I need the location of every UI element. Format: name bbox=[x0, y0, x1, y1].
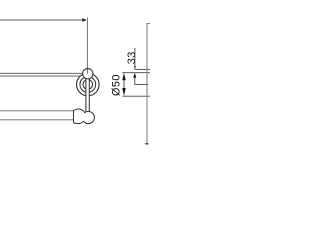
33 dim line upper stub bbox=[134, 48, 136, 67]
svg-text:33: 33 bbox=[126, 51, 138, 64]
towel bar bottom edge bbox=[0, 119, 78, 121]
flange collar ring bbox=[83, 80, 93, 90]
33 lower arrow (up) bbox=[133, 73, 136, 78]
Ø50 bottom extension line bbox=[122, 95, 150, 97]
extension line (center of bracket) bbox=[86, 17, 88, 73]
glass shelf bottom edge bbox=[0, 75, 81, 77]
arrowhead right bbox=[82, 18, 87, 21]
extension line inside knob bbox=[86, 69, 88, 74]
wall line bbox=[146, 24, 148, 144]
wall flange outer circle Ø50 bbox=[77, 73, 100, 96]
Ø50 lower arrow (down) bbox=[122, 88, 125, 96]
support post bbox=[86, 75, 89, 113]
glass shelf top edge bbox=[0, 72, 83, 74]
33 upper arrow (down) bbox=[134, 66, 136, 69]
flange inner ring bbox=[80, 77, 96, 93]
33 upper extension line bbox=[135, 68, 151, 70]
dimension line (overall length, cropped at left) bbox=[0, 19, 83, 21]
shared extension line bbox=[122, 72, 150, 74]
shelf clamp knob bbox=[83, 69, 93, 79]
svg-text:Ø50: Ø50 bbox=[110, 74, 122, 96]
flange centre extension line bbox=[134, 83, 148, 85]
towel bar top edge bbox=[0, 110, 78, 112]
wall bottom tick bbox=[145, 143, 148, 145]
Ø50 dim line bbox=[123, 80, 125, 88]
wall top return bbox=[147, 23, 151, 25]
33 dim line lower stub bbox=[134, 78, 136, 85]
bar end knob and holder ball (peanut outline) bbox=[74, 109, 95, 124]
Ø50 upper arrow (up) bbox=[122, 73, 125, 81]
